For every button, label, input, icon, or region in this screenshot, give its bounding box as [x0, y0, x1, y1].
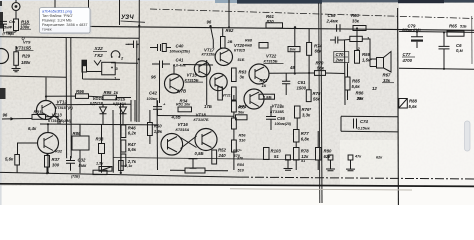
wire C74 loop bottom	[341, 130, 398, 133]
svg-text:R88: R88	[409, 99, 417, 104]
wire R80 leads	[317, 131, 319, 170]
connector stub left edge	[0, 88, 6, 99]
transistor VT9 partial circle left edge	[0, 49, 9, 64]
junction dot VT13 bottom	[47, 172, 49, 174]
transistor VT20 circle	[194, 61, 210, 77]
svg-text:КТ315Б: КТ315Б	[185, 77, 199, 82]
wire vertical x157	[156, 100, 159, 170]
svg-text:96: 96	[207, 20, 212, 25]
wire central block left border outer	[65, 38, 67, 158]
wire C74 loop left edge	[340, 117, 342, 132]
svg-text:R78: R78	[301, 149, 309, 154]
resistor R83 body on rail	[353, 26, 366, 31]
resistor R57 body	[232, 140, 237, 152]
wire R86 top lead	[79, 125, 81, 137]
svg-text:96: 96	[3, 113, 8, 118]
capacitor C43 electrolytic	[153, 101, 162, 116]
paper bright right column	[399, 3, 474, 205]
wire col233 leads	[233, 95, 235, 170]
capacitor C56 electrolytic	[266, 106, 276, 130]
svg-text:39к: 39к	[357, 96, 365, 101]
svg-text:R51 10к: R51 10к	[176, 103, 191, 107]
svg-text:R86: R86	[73, 131, 81, 136]
wire riser to top edge D	[88, 0, 90, 8]
svg-text:100мк: 100мк	[147, 97, 159, 101]
svg-text:3,3к: 3,3к	[302, 112, 311, 117]
svg-text:Размер: 3,24 МБ: Размер: 3,24 МБ	[42, 18, 72, 22]
svg-text:1,5к: 1,5к	[96, 162, 104, 166]
wire dash-dot scan top border	[150, 9, 474, 19]
svg-text:600мк (НА): 600мк (НА)	[402, 28, 421, 32]
resistor VT21 area left body	[218, 87, 223, 100]
svg-text:R29: R29	[22, 54, 30, 59]
svg-text:R103: R103	[271, 149, 282, 154]
top screen bar segment 5	[444, 0, 474, 3]
wire antenna lead	[15, 11, 17, 20]
svg-text:4700: 4700	[402, 58, 413, 63]
svg-text:6,8к: 6,8к	[301, 136, 310, 141]
junction dot C79 rail	[416, 31, 418, 33]
svg-text:R76*: R76*	[302, 107, 312, 112]
svg-text:240: 240	[218, 153, 227, 158]
wire R85 leads	[347, 63, 349, 100]
antenna circle dot	[15, 5, 18, 8]
junction dot row at 309	[308, 72, 310, 74]
junction dot rail at 295	[294, 26, 296, 28]
junction dot rail node 96	[209, 25, 211, 27]
resistor R59 body	[355, 51, 360, 64]
wire block bottom border	[113, 158, 320, 160]
resistor R51 body	[178, 107, 192, 112]
wire connector inner top	[111, 62, 138, 65]
svg-text:510: 510	[239, 138, 246, 142]
resistor R50 body	[148, 123, 153, 136]
connector X22 minus dash	[126, 43, 130, 45]
left screen edge strip	[0, 0, 2, 205]
svg-text:2,4мк: 2,4мк	[326, 19, 339, 24]
resistor 5,6k left edge body	[15, 155, 20, 166]
paper crease under main rail	[230, 189, 412, 190]
svg-text:0,м: 0,м	[456, 48, 464, 53]
transistor VT22 circle	[249, 64, 269, 84]
resistor R29 body	[14, 52, 19, 66]
svg-text:56к: 56к	[317, 66, 325, 71]
svg-text:R56: R56	[239, 134, 247, 138]
wire R38 leads	[101, 125, 103, 173]
wire right margin vertical	[471, 16, 473, 64]
wire R37 top lead	[46, 154, 48, 156]
box C70 frame	[334, 52, 349, 63]
ground under R18	[6, 31, 16, 35]
wire R86 bottom lead	[79, 150, 81, 173]
svg-text:12: 12	[372, 86, 377, 91]
wire left block bottom edge	[0, 76, 66, 77]
svg-text:R38: R38	[96, 137, 104, 142]
underline C77	[402, 56, 415, 58]
screen edge glyph left lower	[0, 12, 3, 29]
svg-text:R37: R37	[52, 157, 60, 162]
junction dot riser B rail	[138, 25, 140, 27]
svg-text:48: 48	[289, 65, 295, 70]
transistor VT20 internals	[199, 63, 207, 75]
underline 100k	[20, 28, 31, 30]
resistor R52 body	[212, 150, 217, 164]
wire VT15 top to VT17	[183, 64, 213, 67]
resistor R78 body	[294, 148, 300, 161]
svg-text:100к: 100к	[20, 24, 30, 29]
svg-text:R59: R59	[362, 52, 370, 57]
svg-text:R77: R77	[301, 131, 309, 136]
svg-text:VT17: VT17	[204, 47, 215, 52]
wire bottom long leads	[170, 169, 228, 172]
resistor bottom long body	[185, 168, 205, 173]
svg-text:R50: R50	[154, 124, 162, 129]
svg-text:С42: С42	[149, 90, 157, 95]
svg-text:С74: С74	[360, 119, 368, 124]
top screen bar segment 4	[398, 0, 444, 3]
resistor R46 body	[121, 125, 126, 138]
svg-text:66к: 66к	[315, 49, 323, 54]
screen edge glyph left	[0, 1, 2, 6]
wire R31 to VT13 node	[46, 116, 59, 124]
resistor R63 body	[232, 68, 237, 82]
wire 3mk down to node	[294, 52, 296, 74]
svg-text:Разрешение: 3456 х 4837: Разрешение: 3456 х 4837	[42, 23, 88, 27]
connector plug body filled half	[82, 60, 87, 66]
underline VT22	[264, 62, 284, 64]
resistor VT21 area right body	[232, 87, 237, 100]
svg-text:5мк: 5мк	[79, 163, 88, 168]
svg-text:VD15: VD15	[115, 97, 126, 102]
transistor VT19 internals	[215, 76, 223, 89]
wire VT15 collector up	[173, 65, 175, 74]
svg-text:5,6к: 5,6к	[352, 84, 361, 89]
svg-text:100мк(25): 100мк(25)	[275, 122, 292, 126]
svg-text:6,2к: 6,2к	[128, 131, 137, 136]
block inner border double left	[131, 100, 135, 122]
svg-text:1,5к*: 1,5к*	[362, 57, 372, 62]
wire cross link A	[181, 138, 197, 148]
underline X22	[93, 51, 107, 53]
wire block inner vertical	[136, 44, 138, 122]
svg-text:VT12: VT12	[57, 100, 68, 105]
ground under R29	[12, 65, 21, 72]
transistor VT12 internals	[42, 103, 51, 118]
wire x345 vertical	[344, 40, 347, 105]
junction dot row at 295	[294, 72, 296, 74]
ground bottom trimmer 3	[346, 155, 355, 171]
svg-text:R87*: R87*	[233, 149, 242, 153]
svg-text:1,9к: 1,9к	[154, 129, 163, 134]
top screen bar segment 2	[237, 0, 322, 4]
wire VT12 collector riser	[45, 78, 47, 101]
svg-text:R68: R68	[245, 38, 253, 42]
wire 5,6k bottom lead	[16, 165, 18, 173]
connector plug body outline	[82, 60, 87, 72]
svg-text:С41: С41	[176, 58, 184, 63]
transistor VT22 internals	[255, 67, 264, 82]
underline VT15	[185, 81, 204, 83]
transistor VT18 internals	[202, 132, 212, 148]
svg-text:2мк: 2мк	[335, 57, 345, 62]
wire right mid horizontal	[399, 68, 474, 69]
transistor VT15 circle	[165, 74, 184, 93]
wire vertical x113	[112, 110, 114, 173]
svg-text:КД103А: КД103А	[113, 102, 127, 106]
svg-text:100мкх(25Б): 100мкх(25Б)	[170, 50, 191, 54]
resistor R38 body	[99, 144, 105, 154]
svg-text:R63: R63	[351, 13, 359, 18]
paper tint upper-left	[0, 0, 210, 100]
antenna circle top left	[12, 3, 20, 11]
capacitor C41 plates	[152, 61, 170, 69]
svg-text:КТ315Б: КТ315Б	[264, 59, 278, 64]
transistor VT12 circle	[37, 101, 56, 120]
resistor R77 body	[294, 130, 300, 143]
svg-text:С77: С77	[403, 52, 411, 57]
wire vertical page bus outer	[319, 3, 320, 203]
paper lower bright zone	[0, 186, 474, 205]
svg-text:КТ315Б: КТ315Б	[16, 46, 31, 51]
capacitor C79 electrolytic	[411, 32, 423, 48]
svg-text:R86: R86	[356, 91, 364, 96]
diode VD15 triangle	[120, 104, 127, 124]
svg-text:51Б: 51Б	[460, 25, 467, 29]
wire riser to top edge C	[54, 0, 56, 8]
top screen bar segment 1	[215, 0, 237, 3]
connector box bottom	[83, 60, 121, 79]
transistor VT23 internals	[250, 92, 259, 107]
wire R37 bottom lead	[46, 167, 48, 173]
resistor R48 body	[121, 154, 126, 166]
junction dot riser E	[228, 26, 230, 28]
wire VT13 base branch down	[18, 143, 25, 155]
svg-text:КД521В: КД521В	[90, 102, 104, 106]
resistor R55 body	[232, 101, 237, 112]
resistor R65 body	[447, 31, 464, 36]
transistor VT18 circle	[195, 129, 217, 151]
connector X22 arc	[111, 51, 120, 57]
transistor VT17 circle	[215, 48, 232, 65]
wire central block left border inner	[70, 38, 72, 158]
top screen bar segment 3	[322, 0, 398, 2]
underline UZCH	[121, 21, 146, 22]
svg-text:180к: 180к	[21, 60, 31, 65]
svg-text:0,15мк: 0,15мк	[358, 127, 371, 131]
wire R78 bottom lead	[295, 160, 297, 170]
resistor R86 big box	[72, 136, 89, 150]
wire cross link B	[181, 136, 197, 149]
junction dot node at riser B	[138, 58, 140, 60]
ground symbol mid	[189, 159, 198, 169]
capacitor C40 plates	[150, 44, 171, 51]
mid rule C70	[335, 56, 349, 58]
antenna top tick	[15, 0, 17, 3]
svg-text:R96: R96	[76, 89, 84, 94]
svg-text:R67: R67	[383, 73, 391, 78]
wire vertical page bus inner	[321, 3, 322, 203]
svg-text:(72В): (72В)	[71, 175, 81, 179]
wire bottom mid rail dash-dot part	[240, 177, 474, 179]
svg-text:2В: 2В	[227, 40, 233, 44]
svg-text:Cm: Cm	[9, 20, 16, 24]
svg-text:VT18: VT18	[196, 112, 207, 117]
svg-text:5,6к: 5,6к	[409, 104, 418, 109]
wire x207 vertical	[206, 60, 208, 105]
svg-text:62к: 62к	[376, 156, 383, 160]
wire R62 top lead	[222, 29, 224, 37]
svg-text:33к: 33к	[383, 78, 391, 83]
svg-text:С56: С56	[277, 116, 285, 121]
capacitor C70 top plates	[330, 37, 343, 44]
svg-text:УЗЧ: УЗЧ	[121, 14, 134, 21]
junction dot VT12 top node	[45, 95, 47, 97]
resistor top small body	[350, 36, 363, 41]
wire right top horizontal	[399, 31, 474, 32]
resistor R62 body	[221, 37, 226, 49]
resistor R56 body	[232, 118, 237, 129]
svg-text:17Б: 17Б	[204, 104, 212, 109]
connector jack outline	[102, 62, 116, 75]
speaker cone	[384, 52, 392, 73]
svg-text:КТ3107Б: КТ3107Б	[194, 118, 209, 122]
connector pin 3 dot	[111, 67, 113, 69]
wire riser to top edge A	[119, 0, 121, 25]
transistor VT16 circle	[161, 134, 183, 156]
svg-text:62к: 62к	[324, 154, 332, 159]
svg-text:R75: R75	[313, 91, 321, 96]
connector check mark	[94, 60, 101, 65]
wire VT17 node riser	[211, 26, 214, 48]
svg-text:R85: R85	[352, 79, 360, 84]
wire bottom mid rail solid part	[0, 172, 240, 177]
svg-text:С70: С70	[336, 52, 344, 57]
resistor R31 body	[32, 115, 46, 120]
resistor R71 body	[236, 115, 248, 120]
wire 3mk riser from rail	[294, 27, 296, 46]
svg-text:0,5Б: 0,5Б	[195, 151, 204, 156]
diode VD14 triangle	[100, 104, 107, 124]
svg-text:4,7В: 4,7В	[176, 88, 186, 93]
wire VT13 emitter down	[47, 154, 49, 173]
wire R95 right lead	[117, 97, 132, 99]
junction dot right cap top	[443, 31, 445, 33]
svg-text:КТ3107Б(АМ): КТ3107Б(АМ)	[48, 119, 72, 123]
resistor R76 body	[295, 106, 301, 118]
resistor 2-1k body	[119, 161, 124, 171]
wire vertical x120	[120, 103, 122, 173]
svg-text:(ГП6): (ГП6)	[3, 31, 13, 35]
svg-text:КТ815Г(К): КТ815Г(К)	[55, 106, 73, 110]
wire VT12 collector to diodes	[56, 103, 132, 106]
svg-text:точек: точек	[42, 27, 52, 31]
wire VT12 emitter down	[54, 116, 60, 124]
svg-text:R95: R95	[104, 90, 112, 95]
svg-text:51: 51	[274, 154, 279, 159]
svg-text:VD14: VD14	[93, 96, 104, 101]
capacitor C39 polarized near riser	[128, 41, 139, 49]
resistor R96 body	[76, 94, 89, 99]
wire left block top edge	[0, 37, 139, 39]
wire R77 bottom lead	[295, 142, 297, 148]
svg-text:47к: 47к	[354, 154, 362, 158]
svg-text:С59: С59	[328, 13, 336, 18]
wire 96 arrow left	[2, 118, 13, 120]
resistor R72 body	[259, 94, 275, 99]
underline R67	[382, 82, 394, 84]
wire R74 top lead	[308, 29, 310, 43]
capacitor C74 plates	[354, 119, 357, 129]
resistor R74 body	[307, 43, 312, 56]
resistor R75 body	[306, 90, 311, 102]
svg-text:R74: R74	[314, 43, 322, 48]
svg-text:R84: R84	[237, 163, 245, 167]
junction dot R37 bottom	[46, 172, 48, 174]
resistor R18 body	[14, 19, 19, 31]
junction dot right cap bottom	[443, 68, 445, 70]
capacitor right column plates	[439, 32, 450, 68]
svg-text:51: 51	[301, 159, 305, 163]
wire connector pin 3	[87, 71, 102, 73]
transistor VT15 internals	[170, 77, 179, 92]
scrollbar thumb right edge	[465, 121, 471, 151]
svg-text:R32: R32	[55, 149, 63, 153]
svg-text:R62: R62	[226, 28, 234, 33]
wire R74 bottom lead	[308, 55, 310, 90]
svg-text:33к: 33к	[352, 19, 360, 24]
wire R96 to R95	[89, 95, 104, 98]
wire diode rail	[40, 123, 157, 126]
svg-text:ГК2: ГК2	[95, 53, 104, 58]
svg-text:Тип Файла: 'PNG': Тип Файла: 'PNG'	[42, 14, 73, 18]
wire R50 leads	[149, 110, 151, 144]
wire riser to top edge E	[228, 0, 230, 27]
svg-text:VT16: VT16	[178, 122, 189, 127]
svg-text:КТ315Б: КТ315Б	[202, 53, 216, 57]
capacitor C input plates	[0, 21, 7, 31]
ground bottom trimmer 1	[284, 155, 293, 170]
wire speaker leads	[370, 53, 377, 67]
wire R96 left lead	[46, 95, 76, 97]
svg-text:300: 300	[52, 162, 60, 167]
resistor 2-2k mid body	[93, 170, 107, 174]
transistor VT19 circle	[210, 73, 227, 90]
underline R18	[21, 23, 30, 25]
transistor VT13 circle	[38, 133, 59, 154]
resistor R47 body	[121, 140, 126, 152]
resistor R37 body	[45, 156, 50, 168]
wire C41 down lead	[159, 68, 161, 103]
resistor R88 box with diagonal	[399, 99, 408, 109]
svg-text:1500: 1500	[297, 85, 307, 90]
svg-text:96: 96	[151, 75, 156, 80]
connector X22 pin dot right	[118, 56, 120, 58]
svg-text:R31: R31	[34, 109, 42, 114]
svg-text:R71: R71	[239, 104, 247, 109]
resistor R61 body on rail	[266, 23, 283, 28]
transistor VT16 internals	[168, 137, 178, 153]
svg-text:VT23: VT23	[272, 104, 283, 109]
wire mid row y116	[157, 115, 233, 118]
tooltip shadow	[41, 9, 92, 34]
paper tint mid-right	[320, 30, 398, 170]
junction dot VT13 top	[47, 123, 49, 125]
capacitor 3mk box	[288, 47, 300, 52]
connector X22 pin dot left	[111, 56, 113, 58]
wire VT13 base left	[24, 142, 38, 144]
svg-text:3мк: 3мк	[290, 48, 296, 52]
wire long right vertical	[397, 8, 400, 205]
